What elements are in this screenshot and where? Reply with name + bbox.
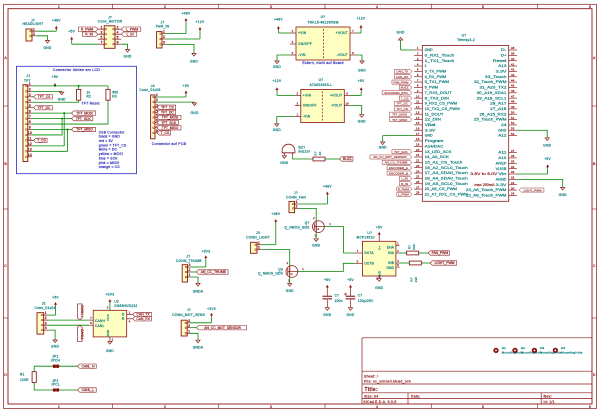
svg-text:20: 20 <box>416 148 420 152</box>
wire motor pin7 to +5V <box>72 43 98 45</box>
global label FAN_PWM (Teensy pin7) <box>392 80 412 84</box>
svg-text:HEADLIGHT: HEADLIGHT <box>22 22 43 26</box>
resistor R3 560 <box>107 86 109 90</box>
global label TFT_SCK (J4 pin6) <box>157 120 178 124</box>
global label T_CS (Teensy pin10) <box>399 96 412 100</box>
svg-text:J2: J2 <box>42 301 46 305</box>
svg-text:+5V: +5V <box>52 75 59 79</box>
svg-text:D: D <box>593 373 596 377</box>
svg-text:File: cc_schnell.klcad_sch: File: cc_schnell.klcad_sch <box>364 379 411 383</box>
svg-text:19: 19 <box>416 143 420 147</box>
svg-text:R3: R3 <box>112 95 117 99</box>
power +48V (headlight) <box>55 30 57 31</box>
svg-text:44: 44 <box>511 78 515 82</box>
svg-text:7: 7 <box>100 40 102 44</box>
svg-text:GND: GND <box>124 55 132 59</box>
svg-text:U?: U? <box>319 78 324 82</box>
svg-text:3: 3 <box>163 41 165 45</box>
svg-text:AN_CC_THUMB: AN_CC_THUMB <box>201 270 227 274</box>
svg-text:FAN_PWM: FAN_PWM <box>393 80 409 84</box>
svg-text:100n: 100n <box>335 299 343 303</box>
capacitor C? 100u/25V polarized <box>346 296 356 297</box>
svg-text:17_A3_SDA0_Touch: 17_A3_SDA0_Touch <box>425 171 469 175</box>
resistor R? 330 (light pwm) <box>409 261 421 265</box>
svg-text:ATA00436S-L: ATA00436S-L <box>310 83 333 87</box>
transistor Q3 Q_NMOS_GDS (light) <box>286 266 298 278</box>
global label R_IN <box>82 32 98 36</box>
svg-text:16: 16 <box>416 126 420 130</box>
svg-text:3_TX_PWM: 3_TX_PWM <box>425 70 447 74</box>
svg-text:GND: GND <box>358 119 366 123</box>
svg-text:26: 26 <box>416 180 420 184</box>
svg-text:1: 1 <box>292 29 294 33</box>
ground (dc-dc 2 in) <box>276 122 278 125</box>
svg-text:LIGHT_PWM: LIGHT_PWM <box>523 188 542 192</box>
svg-text:CAN_RX: CAN_RX <box>136 317 150 321</box>
svg-text:30_A19_SDA1: 30_A19_SDA1 <box>477 91 507 95</box>
svg-text:TFT Reset: TFT Reset <box>82 102 100 106</box>
global label TFT_SCK (Teensy pin20) <box>392 150 412 154</box>
ground (C 100u) <box>350 306 352 309</box>
global label T_CS (J4 pin8) <box>157 131 170 135</box>
wire headlight pin2 to GND <box>36 36 47 40</box>
svg-text:OUTB: OUTB <box>364 261 374 265</box>
svg-text:D+: D+ <box>501 53 507 57</box>
svg-text:L_PWM: L_PWM <box>126 27 138 31</box>
svg-text:BUZZ: BUZZ <box>401 86 409 90</box>
ground (U2) <box>109 340 111 343</box>
svg-text:Q_NMOS_GDS: Q_NMOS_GDS <box>285 225 310 229</box>
svg-text:11_DOUT: 11_DOUT <box>425 112 444 116</box>
svg-text:A11: A11 <box>498 151 506 155</box>
svg-text:18_A4_SDA0_Touch: 18_A4_SDA0_Touch <box>425 177 469 181</box>
ground (J4 pin2) <box>194 101 196 104</box>
power +12V (dc-dc 2 in) <box>276 91 278 95</box>
svg-text:+12V: +12V <box>357 16 366 20</box>
svg-text:+5V: +5V <box>324 278 331 282</box>
svg-text:TFT_SCK: TFT_SCK <box>161 121 177 125</box>
svg-text:24: 24 <box>416 169 420 173</box>
svg-text:27: 27 <box>416 185 420 189</box>
frame column ticks and numbers <box>112 4 114 8</box>
svg-text:A13: A13 <box>498 64 506 68</box>
power +5V (C 100n) <box>326 287 328 289</box>
power +5V (MCP14610) <box>378 235 380 237</box>
svg-text:2: 2 <box>29 87 31 91</box>
svg-text:Date:: Date: <box>411 394 420 398</box>
svg-text:21_A7_RX1_CS_PWM: 21_A7_RX1_CS_PWM <box>425 193 469 197</box>
power +5V (CAN conn) <box>55 306 57 315</box>
wire R1 bottom to JP2 <box>34 383 52 391</box>
global label L_IN (Teensy pin25) <box>399 176 412 180</box>
svg-text:46: 46 <box>511 89 515 93</box>
svg-text:R1: R1 <box>20 373 25 377</box>
buzzer BZ? <box>282 144 295 153</box>
wire fan pin2 to Q? drain <box>299 208 316 221</box>
svg-text:+3V3: +3V3 <box>207 307 216 311</box>
svg-text:CANL_H: CANL_H <box>81 364 95 368</box>
svg-text:3: 3 <box>188 319 190 323</box>
svg-text:23_A8_Touch_PWM: 23_A8_Touch_PWM <box>466 188 507 192</box>
wire Teensy Vin to +5V <box>517 173 548 175</box>
svg-text:J1: J1 <box>27 74 31 78</box>
svg-text:ENA: ENA <box>387 246 395 250</box>
svg-text:26_A15_RX2: 26_A15_RX2 <box>479 112 506 116</box>
svg-text:1: 1 <box>329 222 331 226</box>
global label AN_CC_THUMB <box>196 270 228 274</box>
svg-text:2: 2 <box>156 98 158 102</box>
ground (C 100n) <box>326 306 328 309</box>
svg-text:25_Touch_PWM: 25_Touch_PWM <box>474 118 507 122</box>
svg-text:R: R <box>122 317 125 321</box>
resistor R? 330 (fan pwm) <box>407 251 419 255</box>
svg-text:AN_CC_THUMB: AN_CC_THUMB <box>385 161 408 165</box>
svg-text:Title:: Title: <box>365 387 378 393</box>
svg-text:GND: GND <box>559 193 567 197</box>
wire pwr pin2 to +12V <box>165 38 200 40</box>
wire resistor to FAN_PWM <box>419 252 428 254</box>
svg-text:2: 2 <box>33 32 35 36</box>
svg-text:1: 1 <box>188 329 190 333</box>
power +5V (motor) <box>71 41 73 45</box>
svg-text:9_RX2_CS_PWM: 9_RX2_CS_PWM <box>425 102 458 106</box>
svg-text:2: 2 <box>258 246 260 250</box>
svg-text:11: 11 <box>416 100 420 104</box>
svg-text:TFT_MISO: TFT_MISO <box>162 126 179 130</box>
global label AN_CC_MOT_SENSOR <box>197 326 247 330</box>
svg-text:6_PWM: 6_PWM <box>425 86 439 90</box>
wire -VIN to GND (dc-dc 2) <box>277 117 295 124</box>
svg-text:AREF: AREF <box>496 161 507 165</box>
svg-text:GND: GND <box>425 134 434 138</box>
svg-text:VUSB: VUSB <box>496 167 507 171</box>
power +5V (LCD) <box>54 84 56 87</box>
wire INB to resistor <box>400 262 410 264</box>
svg-text:A14/DAC: A14/DAC <box>425 144 445 148</box>
svg-text:9: 9 <box>29 126 31 130</box>
wire pwr pin3 to GND <box>165 44 194 53</box>
svg-text:GND: GND <box>273 65 281 69</box>
svg-text:GND: GND <box>397 31 405 35</box>
svg-text:8: 8 <box>417 84 419 88</box>
svg-text:3: 3 <box>29 93 31 97</box>
svg-text:GND: GND <box>386 266 394 270</box>
svg-text:2: 2 <box>45 316 47 320</box>
global label LIGHT_PWM (Teensy pin30) <box>519 188 544 192</box>
svg-text:1: 1 <box>189 273 191 277</box>
svg-text:-VIN: -VIN <box>303 115 311 119</box>
svg-text:1: 1 <box>296 200 298 204</box>
svg-text:TFT_DC: TFT_DC <box>161 111 174 115</box>
svg-text:4: 4 <box>45 326 47 330</box>
svg-text:GND: GND <box>273 128 281 132</box>
svg-text:4: 4 <box>29 98 31 102</box>
svg-text:50: 50 <box>511 110 515 114</box>
svg-text:+5V: +5V <box>376 225 383 229</box>
svg-text:+3V3: +3V3 <box>201 249 210 253</box>
global label L_PWM (Teensy pin28) <box>397 192 412 196</box>
wire J1 pin6 to TFT_MOSI <box>32 112 72 114</box>
wire fan pin1 to +48V <box>299 203 328 205</box>
wire mot sens pin3 to +3V3 <box>190 322 212 324</box>
svg-text:GND: GND <box>498 128 507 132</box>
svg-text:R_IN: R_IN <box>401 182 408 186</box>
ground (MCP14610) <box>378 277 380 280</box>
svg-text:J?: J? <box>186 254 190 258</box>
global label TFT_MOSI (J4 pin5) <box>157 115 181 119</box>
svg-text:JPCL: JPCL <box>51 383 60 387</box>
svg-text:+48V: +48V <box>52 18 61 22</box>
svg-text:TFT_DC: TFT_DC <box>396 102 408 106</box>
ground (power in) <box>193 52 195 55</box>
svg-text:10: 10 <box>345 102 349 106</box>
svg-text:6: 6 <box>589 5 591 9</box>
global label AN_CC_MOT_SENSOR (Teensy pin21) <box>370 155 412 159</box>
svg-text:+5V: +5V <box>544 157 551 161</box>
svg-text:T_CS: T_CS <box>401 96 409 100</box>
junction pin6 riser <box>63 112 65 114</box>
svg-text:Size: A4: Size: A4 <box>364 394 378 398</box>
junction pin7 riser <box>61 118 63 120</box>
svg-text:GND: GND <box>106 329 110 337</box>
svg-text:4: 4 <box>376 405 378 409</box>
svg-text:6: 6 <box>29 109 31 113</box>
svg-text:40: 40 <box>511 57 515 61</box>
svg-text:TFT_MOSI: TFT_MOSI <box>162 116 179 120</box>
svg-text:7: 7 <box>417 78 419 82</box>
wire pin9 riser to pin13 <box>32 130 68 152</box>
svg-text:VCC: VCC <box>106 313 110 321</box>
svg-text:37: 37 <box>511 149 515 153</box>
wire thumb pin3 to +3V3 <box>190 266 206 268</box>
svg-text:Rev:: Rev: <box>544 394 552 398</box>
svg-text:7: 7 <box>352 29 354 33</box>
svg-text:R?: R? <box>314 151 318 155</box>
svg-text:6: 6 <box>589 405 591 409</box>
global label R_PWM (Teensy pin27) <box>397 187 412 191</box>
svg-text:Teensy3.2: Teensy3.2 <box>457 38 475 42</box>
svg-text:TFT_SCK: TFT_SCK <box>394 150 408 154</box>
wire J1 pin2 to GND <box>32 90 62 92</box>
svg-text:15_A1_CS_Touch: 15_A1_CS_Touch <box>425 160 463 164</box>
ground GNDA (mot sens) <box>197 339 199 342</box>
ground (headlight) <box>47 39 49 42</box>
svg-text:+48V: +48V <box>182 11 191 15</box>
svg-text:H1: H1 <box>502 346 506 350</box>
wire J2 pin3 to CANL <box>48 324 89 326</box>
svg-text:R_IN: R_IN <box>85 32 93 36</box>
svg-text:V+: V+ <box>378 246 382 250</box>
wire J1 pin9 to TFT_MISO <box>32 129 72 131</box>
capacitor C? 100n <box>323 296 333 297</box>
svg-text:2: 2 <box>292 51 294 55</box>
svg-text:27_A16: 27_A16 <box>490 107 507 111</box>
svg-text:PwR_IN: PwR_IN <box>156 25 170 29</box>
svg-text:AGND: AGND <box>496 177 508 181</box>
svg-text:28_A17: 28_A17 <box>490 102 507 106</box>
mounting hole H4 <box>553 348 558 353</box>
svg-text:VBat: VBat <box>425 123 436 127</box>
ground (Teensy pin17) <box>382 136 384 142</box>
svg-text:+5V: +5V <box>358 79 365 83</box>
svg-text:GND: GND <box>43 46 51 50</box>
svg-text:2: 2 <box>164 405 166 409</box>
svg-text:7: 7 <box>357 249 359 253</box>
svg-text:5: 5 <box>417 68 419 72</box>
svg-text:19_A5_SCL0_Touch: 19_A5_SCL0_Touch <box>425 182 469 186</box>
svg-text:+12V: +12V <box>196 20 205 24</box>
svg-text:10_TX2_CS_PWM: 10_TX2_CS_PWM <box>425 107 461 111</box>
wire resistor to LIGHT_PWM <box>421 262 430 264</box>
svg-text:25: 25 <box>416 175 420 179</box>
wire light pin1 to +48V <box>261 244 276 246</box>
svg-text:C: C <box>4 264 7 268</box>
ground (Q? fan) <box>315 237 317 240</box>
global label TFT_SCK (J1 pin7) <box>72 116 93 120</box>
svg-text:14_A0_SCK: 14_A0_SCK <box>425 155 451 159</box>
svg-text:1: 1 <box>156 93 158 97</box>
svg-text:24: 24 <box>501 123 507 127</box>
wire R1 top to JP1 <box>34 365 52 367</box>
svg-text:53: 53 <box>511 126 515 130</box>
svg-text:8: 8 <box>397 263 399 267</box>
svg-text:TFT_CS: TFT_CS <box>38 95 51 99</box>
svg-text:6: 6 <box>417 73 419 77</box>
svg-text:TFT_SCK: TFT_SCK <box>76 117 92 121</box>
ground (dc-dc 1 in) <box>276 60 278 63</box>
global label ENCODER_BTN (Teensy pin9) <box>382 91 412 95</box>
svg-text:ENCODER_B: ENCODER_B <box>389 171 408 175</box>
svg-text:2: 2 <box>296 205 298 209</box>
svg-text:9: 9 <box>417 89 419 93</box>
power +48V (power in) <box>185 22 187 34</box>
svg-text:C?: C? <box>358 294 363 298</box>
note box Connector hinten am LCD <box>16 66 136 173</box>
ground (J2) <box>54 339 56 342</box>
svg-text:7_RX3_DOUT: 7_RX3_DOUT <box>425 91 452 95</box>
svg-text:J?: J? <box>187 308 191 312</box>
svg-text:Connector hinten am LCD: Connector hinten am LCD <box>53 68 100 72</box>
svg-text:CONN_LIGHT: CONN_LIGHT <box>246 236 270 240</box>
wire JP2 to CANL_L <box>59 389 77 391</box>
svg-text:+VIN: +VIN <box>298 31 307 35</box>
wire headlight pin1 to +48V <box>36 30 56 32</box>
svg-text:1: 1 <box>45 311 47 315</box>
wire pin7 riser to pin10 <box>32 119 62 135</box>
svg-text:2: 2 <box>296 92 298 96</box>
svg-text:L_PWM: L_PWM <box>398 193 409 197</box>
svg-text:Id: 1/1: Id: 1/1 <box>544 400 555 404</box>
global label CANLL (vertical) <box>77 325 82 341</box>
svg-text:5: 5 <box>100 35 102 39</box>
svg-text:TFT_MOSI: TFT_MOSI <box>392 112 407 116</box>
svg-text:U?: U? <box>367 231 372 235</box>
svg-text:33_Touch: 33_Touch <box>485 75 507 79</box>
svg-text:51: 51 <box>511 116 515 120</box>
svg-text:Sheet: /: Sheet: / <box>364 375 378 379</box>
svg-text:8: 8 <box>117 40 119 44</box>
svg-text:GND: GND <box>190 60 198 64</box>
wire pwr pin1 to +48V <box>165 33 186 35</box>
power +12V (dc-dc 1 out) <box>360 29 362 33</box>
svg-text:GND: GND <box>375 286 383 290</box>
svg-text:21: 21 <box>416 153 420 157</box>
svg-text:+48V: +48V <box>271 212 280 216</box>
svg-text:3: 3 <box>296 102 298 106</box>
svg-text:23: 23 <box>416 164 420 168</box>
svg-text:15: 15 <box>416 121 420 125</box>
ground (Teensy pin1, up) <box>400 40 402 50</box>
svg-text:MountingHole: MountingHole <box>521 350 543 354</box>
junction pin9 riser <box>66 129 68 131</box>
svg-text:D: D <box>4 373 7 377</box>
global label LIGHT_PWM <box>430 261 457 265</box>
ground (dc-dc 1 out) <box>361 60 363 63</box>
wire Teensy pin53 GND <box>517 130 547 137</box>
power +48V (dc-dc 1) <box>277 30 279 33</box>
svg-text:31: 31 <box>511 181 515 185</box>
svg-text:+12V: +12V <box>273 79 282 83</box>
global label TFT_MISO (Teensy pin14) <box>390 118 413 122</box>
svg-text:31_A20_TX2: 31_A20_TX2 <box>479 86 506 90</box>
wire Teensy AGND to GND <box>517 179 563 186</box>
svg-text:TRKL5-4812WISM: TRKL5-4812WISM <box>307 21 338 25</box>
svg-text:39: 39 <box>511 52 515 56</box>
power +5V (Teensy Vin) <box>547 168 549 174</box>
global label AN_CC_THUMB (Teensy pin22) <box>382 160 412 164</box>
svg-text:120R: 120R <box>20 378 29 382</box>
global label TFT_MOSI (J1 pin6) <box>72 111 96 115</box>
svg-text:330: 330 <box>412 244 416 250</box>
svg-text:13: 13 <box>28 147 32 151</box>
wire mot sens pin1 to GNDA <box>190 333 198 339</box>
svg-text:3: 3 <box>189 263 191 267</box>
svg-text:GND: GND <box>312 244 320 248</box>
svg-text:3: 3 <box>100 30 102 34</box>
svg-text:Conn_01x08: Conn_01x08 <box>139 88 160 92</box>
wire +VOUT to +12V <box>356 32 361 34</box>
power +48V (light) <box>275 223 277 245</box>
svg-text:Vin: Vin <box>498 172 506 176</box>
title block <box>362 337 592 339</box>
svg-text:3: 3 <box>270 5 272 9</box>
svg-text:R?: R? <box>407 245 411 249</box>
global label TFT_DC (Teensy pin11) <box>394 101 412 105</box>
svg-text:-VIN: -VIN <box>298 53 306 57</box>
svg-text:CANLL: CANLL <box>80 329 84 340</box>
mounting hole H2 <box>512 348 517 353</box>
svg-text:2: 2 <box>417 52 419 56</box>
svg-text:33: 33 <box>511 170 515 174</box>
global label BUZZ (Teensy pin8) <box>399 85 412 89</box>
svg-text:3.3V: 3.3V <box>496 70 508 74</box>
svg-text:Program: Program <box>425 139 444 143</box>
global label R_IN (Teensy pin26) <box>399 182 412 186</box>
svg-text:H4: H4 <box>561 346 565 350</box>
svg-text:+48V: +48V <box>323 185 332 189</box>
power +5V (J4) <box>185 95 187 98</box>
svg-text:TFT_MISO: TFT_MISO <box>76 128 93 132</box>
svg-text:3: 3 <box>107 306 109 310</box>
svg-text:A10: A10 <box>498 156 506 160</box>
svg-text:GND: GND <box>286 289 294 293</box>
global label CAN_TX <box>133 312 152 316</box>
svg-text:CONN_FAN: CONN_FAN <box>286 196 306 200</box>
global label L_PWM <box>121 27 141 31</box>
svg-text:R2: R2 <box>87 95 92 99</box>
wire Q? source to GND <box>315 233 317 239</box>
svg-text:5: 5 <box>357 259 359 263</box>
